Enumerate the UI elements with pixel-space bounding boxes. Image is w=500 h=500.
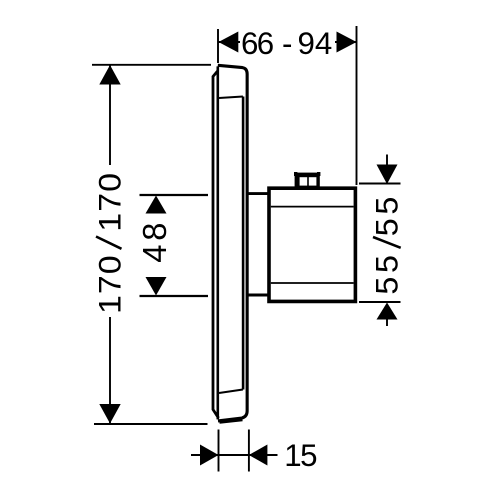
- valve neck top line: [248, 192, 269, 195]
- cover front face line: [242, 97, 245, 390]
- dimension 66-94: left extension line: [217, 29, 219, 63]
- dimension 55/55: top extension line: [359, 183, 401, 185]
- svg-text:-: -: [282, 26, 292, 61]
- knob inner top line: [271, 206, 354, 208]
- dimension 66-94: left arrow: [219, 32, 239, 53]
- svg-text:15: 15: [284, 438, 317, 473]
- knob body outline: [269, 188, 355, 301]
- dimension 170/170: top arrow: [99, 65, 120, 85]
- svg-text:170: 170: [92, 172, 127, 232]
- cover top tangent line: [219, 97, 243, 99]
- dimension 55/55: label slash (drawn): [373, 237, 401, 248]
- cover plate outline: [218, 65, 247, 421]
- dimension 170/170: bottom extension line: [94, 423, 208, 425]
- dimension 170/170: label slash (drawn): [96, 237, 122, 249]
- knob top button: [294, 172, 320, 189]
- dimension 66-94: right extension line: [356, 26, 358, 185]
- dimension 170/170: dimension line upper segment: [109, 65, 111, 165]
- dimension 66-94: dimension line left stub: [218, 41, 240, 43]
- dimension 48: top extension line: [140, 194, 209, 196]
- knob inner bottom line: [271, 282, 354, 284]
- svg-text:66: 66: [241, 26, 274, 61]
- dimension 15: dimension line with tails: [191, 454, 278, 456]
- dimension 55/55: bottom arrow: [377, 303, 398, 320]
- svg-text:55: 55: [369, 193, 404, 236]
- dimension 66-94: dimension line right stub: [335, 41, 357, 43]
- dimension 55/55: top arrow: [377, 165, 398, 185]
- cover bottom tangent line: [219, 390, 243, 394]
- dimension 170/170: dimension line lower segment: [109, 317, 111, 423]
- dimension 48: bottom extension line: [140, 295, 209, 297]
- valve neck bottom line: [248, 294, 269, 297]
- svg-text:55: 55: [369, 251, 404, 294]
- dimension 66-94: right arrow: [337, 32, 357, 53]
- dimension 55/55: bottom extension line: [359, 301, 401, 303]
- dimension 48: top arrow: [146, 196, 167, 214]
- dimension 55/55: bottom arrow tail: [386, 319, 388, 326]
- cover bottom edge accent: [220, 420, 243, 423]
- dimension 15: right arrow: [249, 445, 268, 466]
- dimension 48: bottom arrow: [146, 277, 167, 296]
- svg-text:170: 170: [92, 254, 127, 314]
- back plate left edge: [213, 71, 219, 419]
- dimension 170/170: bottom arrow: [99, 404, 120, 424]
- dimension 15: right extension line: [248, 430, 250, 472]
- dimension 15: left arrow: [200, 445, 219, 466]
- svg-text:48: 48: [136, 219, 173, 263]
- dimension 15: left extension line: [218, 430, 220, 472]
- svg-text:94: 94: [298, 26, 333, 61]
- cover plate left edge: [217, 66, 220, 419]
- dimension 170/170: top extension line: [92, 64, 211, 66]
- dimension 55/55: top arrow tail: [386, 155, 388, 167]
